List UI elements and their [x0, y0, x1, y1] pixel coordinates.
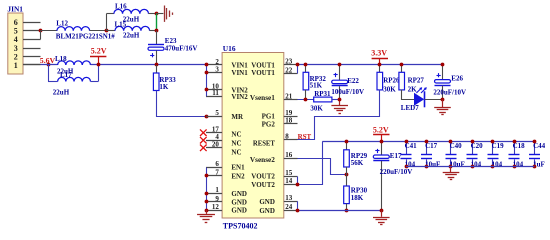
svg-text:L18: L18: [55, 55, 67, 63]
svg-text:PG2: PG2: [262, 120, 276, 128]
wire pin4 to pin5: [40, 31, 42, 40]
pin 20 left stub: [206, 147, 222, 149]
svg-text:RESET: RESET: [253, 140, 275, 148]
no-connect X mark: [200, 145, 207, 152]
wire bus 5.6V to L18: [41, 64, 58, 66]
resistor RP27 2K: [401, 65, 403, 73]
svg-text:100uF/10V: 100uF/10V: [331, 88, 364, 96]
svg-text:VOUT2: VOUT2: [251, 181, 275, 189]
svg-text:GND: GND: [259, 198, 275, 206]
svg-text:EN2: EN2: [231, 172, 245, 180]
svg-text:3: 3: [14, 44, 18, 53]
svg-text:18K: 18K: [351, 194, 364, 202]
svg-text:470uF/16V: 470uF/16V: [165, 45, 198, 53]
wire green L16-L15 tie: [156, 14, 158, 31]
node L15 output: [155, 29, 159, 33]
wire pin13 riser: [297, 201, 299, 210]
ground cap bank: [450, 167, 452, 172]
svg-text:U16: U16: [223, 44, 236, 53]
svg-text:51K: 51K: [310, 81, 323, 89]
power symbol 5.2V input rail: [90, 56, 106, 58]
wire Vsense1 row: [298, 99, 314, 101]
pin 18 right stub: [284, 123, 298, 125]
capacitor E22 100uF/10V: [339, 65, 341, 80]
wire RST net: [298, 90, 380, 140]
pin 16 right stub: [284, 158, 298, 160]
svg-text:1: 1: [14, 61, 18, 70]
pin 11 left stub: [206, 96, 222, 98]
pin 24 right stub: [284, 210, 298, 212]
pin 6 stub: [23, 22, 41, 24]
svg-text:22uH: 22uH: [123, 31, 140, 39]
chassis ground: [156, 13, 163, 15]
svg-text:NC: NC: [231, 149, 241, 157]
node E23 bus junction: [155, 63, 159, 67]
svg-text:NC: NC: [231, 140, 241, 148]
svg-text:GND: GND: [259, 207, 275, 215]
wire RP31 to E22 gnd: [332, 99, 340, 101]
wire to L16: [106, 13, 114, 15]
pin 2 stub: [23, 56, 41, 58]
capacitor C17: [426, 141, 428, 154]
LED arrows: [416, 88, 421, 93]
wire riser to L16 row: [106, 14, 108, 31]
pin 9 left stub: [206, 201, 222, 203]
svg-text:Vsense1: Vsense1: [250, 94, 276, 102]
capacitor C41: [406, 141, 408, 154]
wire GND bottom rail: [297, 210, 381, 212]
pin 21 right stub: [284, 99, 298, 101]
pin 19 right stub: [284, 116, 298, 118]
wire pin22 riser: [297, 65, 299, 74]
svg-text:VIN1: VIN1: [231, 69, 248, 77]
pin 4 stub: [23, 39, 41, 41]
svg-text:L16: L16: [115, 3, 127, 11]
svg-text:RP26: RP26: [383, 76, 400, 84]
svg-text:9: 9: [215, 195, 219, 203]
capacitor E17 220uF/10V: [381, 141, 383, 155]
svg-text:22: 22: [285, 66, 293, 74]
svg-text:1K: 1K: [159, 83, 169, 91]
pin 1 left stub: [206, 193, 222, 195]
wire L17 branch left riser: [48, 65, 50, 82]
pin 6 left stub: [206, 167, 222, 169]
svg-text:VOUT2: VOUT2: [251, 173, 275, 181]
svg-text:VOUT1: VOUT1: [251, 69, 275, 77]
wire L16 to node: [149, 13, 157, 15]
svg-text:GND: GND: [231, 199, 247, 207]
svg-text:16: 16: [285, 151, 293, 159]
svg-text:1: 1: [215, 186, 219, 194]
pin 5 left stub: [206, 116, 222, 118]
svg-text:220uF/10V: 220uF/10V: [380, 168, 413, 176]
pin 5 stub: [23, 30, 41, 32]
svg-text:L15: L15: [115, 20, 127, 28]
svg-text:20: 20: [212, 141, 220, 149]
wire to L15: [106, 30, 115, 32]
wire pin5 to L12: [41, 30, 58, 32]
capacitor C20: [472, 141, 474, 154]
pin 22 right stub: [284, 73, 298, 75]
svg-text:RST: RST: [298, 133, 312, 141]
wire EN1/EN2/GND tie: [206, 168, 208, 211]
inductor L18 22uH: [58, 61, 91, 65]
pin 10 left stub: [206, 89, 222, 91]
svg-text:23: 23: [285, 58, 293, 66]
svg-text:5.2V: 5.2V: [373, 126, 389, 135]
svg-text:GND: GND: [231, 190, 247, 198]
svg-text:11: 11: [212, 89, 219, 97]
svg-text:7: 7: [215, 169, 219, 177]
svg-text:NC: NC: [231, 131, 241, 139]
node L17/L18 output: [97, 63, 101, 67]
inductor L17 22uH: [58, 77, 91, 81]
svg-text:RP27: RP27: [408, 76, 425, 84]
svg-text:E23: E23: [165, 37, 177, 45]
wire L15 to node: [150, 30, 156, 32]
node L16 output: [155, 12, 159, 16]
resistor RP31 30K: [314, 97, 332, 102]
wire Vsense2 net: [298, 159, 347, 175]
op-amp U1 regulator U16 TPS70402 body: [222, 53, 284, 219]
svg-text:TPS70402: TPS70402: [223, 221, 258, 230]
svg-text:5: 5: [215, 109, 219, 117]
svg-text:15: 15: [285, 169, 293, 177]
svg-text:21: 21: [285, 92, 293, 100]
wire 5.2V rail: [322, 141, 534, 143]
svg-text:E26: E26: [451, 74, 463, 82]
pin 3 left stub: [206, 72, 222, 74]
pin 1 stub: [23, 64, 41, 66]
LED LED7: [414, 93, 424, 106]
pin 3 stub: [23, 48, 41, 50]
pin 23 right stub: [284, 64, 298, 66]
svg-text:BLM21PG221SN1#: BLM21PG221SN1#: [56, 33, 115, 41]
wire L17 row right: [91, 81, 99, 83]
capacitor C40: [450, 141, 452, 154]
connector JIN1: [8, 13, 23, 74]
svg-text:6: 6: [215, 160, 219, 168]
svg-text:L17: L17: [60, 71, 72, 79]
svg-text:JIN1: JIN1: [7, 5, 23, 14]
pin 13 right stub: [284, 201, 298, 203]
ground bottom rail: [381, 210, 383, 217]
svg-text:E17: E17: [390, 152, 402, 160]
ground E22: [339, 100, 341, 106]
wire pin1 stub: [23, 64, 41, 66]
svg-text:220uF/10V: 220uF/10V: [433, 88, 466, 96]
node MR: [205, 115, 209, 119]
capacitor C19: [492, 141, 494, 154]
svg-text:VIN2: VIN2: [231, 93, 248, 101]
wire cap bank bottom rail: [406, 166, 535, 168]
svg-text:MR: MR: [231, 113, 244, 121]
power symbol 3.3V: [372, 58, 388, 60]
pin 2 left stub: [206, 64, 222, 66]
power symbol 5.2V output: [373, 134, 389, 136]
svg-text:3.3V: 3.3V: [371, 49, 387, 58]
svg-text:6: 6: [14, 18, 18, 27]
node 5.6V junction: [47, 63, 51, 67]
wire 3.3V rail: [298, 64, 443, 66]
pin 4 left stub: [206, 140, 222, 142]
svg-text:EN1: EN1: [231, 164, 245, 172]
svg-text:LED7: LED7: [401, 104, 419, 112]
capacitor E23 470uF/16V: [156, 31, 158, 45]
wire VOUT2 riser: [298, 142, 323, 185]
resistor RP29 56K: [346, 141, 348, 150]
pin 7 left stub: [206, 175, 222, 177]
pin 14 right stub: [284, 184, 298, 186]
ground E26: [442, 99, 444, 107]
svg-text:2K: 2K: [408, 86, 418, 94]
node branch L15/L16: [105, 29, 109, 33]
svg-text:14: 14: [285, 177, 293, 185]
svg-text:L12: L12: [56, 19, 68, 27]
wire RP27 to LED: [402, 90, 415, 100]
wire bus L18 to IC: [91, 64, 207, 66]
inductor L16 22uH: [114, 9, 149, 13]
svg-text:3: 3: [215, 65, 219, 73]
resistor RP32 51K: [305, 65, 307, 73]
svg-text:E22: E22: [347, 77, 359, 85]
no-connect X mark: [200, 137, 207, 144]
wire VIN tie riser: [206, 65, 208, 96]
svg-text:5.2V: 5.2V: [91, 47, 107, 56]
svg-text:GND: GND: [231, 207, 247, 215]
svg-text:30K: 30K: [310, 105, 323, 113]
pin 17 left stub: [206, 132, 222, 134]
svg-text:24: 24: [285, 203, 293, 211]
svg-text:22uH: 22uH: [53, 89, 70, 97]
pin 12 left stub: [206, 210, 222, 212]
svg-text:12: 12: [212, 203, 220, 211]
inductor L12 (ferrite bead BLM21PG221SN1#): [57, 27, 90, 31]
svg-text:30K: 30K: [383, 86, 396, 94]
wire L17 row left: [48, 81, 58, 83]
ground IC left: [206, 210, 208, 214]
svg-text:Vsense2: Vsense2: [250, 156, 276, 164]
capacitor E26 220uF/10V: [442, 65, 444, 80]
svg-text:8: 8: [285, 132, 289, 140]
pin 15 right stub: [284, 176, 298, 178]
resistor RP33 1K: [156, 65, 158, 73]
inductor L15 22uH: [115, 26, 150, 30]
svg-text:56K: 56K: [351, 159, 364, 167]
wire L12 to branch node: [90, 30, 107, 32]
no-connect X mark: [200, 129, 207, 136]
wire RP33 to MR: [157, 91, 207, 117]
svg-text:5: 5: [14, 27, 18, 36]
resistor RP26 30K: [379, 65, 381, 73]
node pin5-pin4 junction: [39, 29, 43, 33]
svg-text:18: 18: [285, 117, 293, 125]
capacitor C18: [514, 141, 516, 154]
wire L17 right riser: [98, 65, 100, 82]
svg-text:RP31: RP31: [314, 90, 331, 98]
pin 8 right stub: [284, 139, 298, 141]
resistor RP30 18K: [344, 186, 350, 204]
svg-text:13: 13: [285, 194, 293, 202]
capacitor C44: [534, 141, 536, 154]
